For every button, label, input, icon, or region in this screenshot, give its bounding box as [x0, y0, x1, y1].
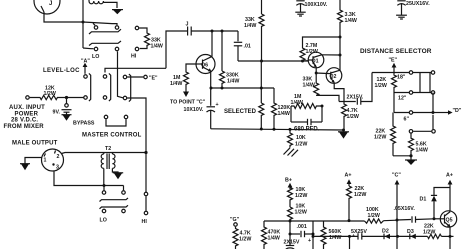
wire bus to switch row1 right contact [83, 22, 117, 25]
wire main supply column x=340 [339, 0, 341, 9]
svg-text:T2: T2 [105, 146, 111, 152]
switch S1 row2 contact right [115, 47, 119, 51]
resistor R17 10K 1/2W upper [288, 187, 308, 207]
resistor R1 33K 1/4W [139, 28, 163, 50]
resistor R2 33K 1/4W (x=261 column) [244, 0, 264, 61]
node 1M right end [321, 105, 324, 108]
svg-text:1/4W: 1/4W [291, 100, 303, 106]
resistor R3 1M 1/4W (Q6 base) [170, 64, 196, 92]
resistor R16 12K 1/2W (aux power) [26, 86, 84, 100]
capacitor C11 .05X16V (Q5 base coupling) [394, 206, 435, 223]
capacitor C2 .01 [234, 31, 251, 61]
svg-text:"A": "A" [81, 59, 90, 65]
selector row 6" with output D [394, 93, 462, 123]
svg-text:"G": "G" [230, 217, 240, 223]
wire Q1 collector to supply [322, 54, 340, 56]
svg-text:D3: D3 [407, 229, 414, 235]
svg-text:1/4W: 1/4W [151, 44, 163, 50]
terminal circle E [144, 75, 148, 79]
label AUX INPUT POWER [4, 105, 46, 130]
switch S1 row2 contact left [94, 47, 98, 51]
svg-text:+: + [216, 102, 219, 108]
svg-text:100K: 100K [366, 207, 379, 213]
svg-text:1/4W: 1/4W [278, 111, 290, 117]
node 330K bottom [221, 87, 224, 90]
node Q1 emitter junction [315, 72, 318, 75]
svg-text:SELECTED: SELECTED [224, 109, 257, 115]
ground arrow selector [405, 156, 417, 165]
wire row2 right contact down x=117 [118, 51, 123, 97]
wire vertical bus x=83 from top edge [82, 0, 84, 48]
wire master control HI column [145, 153, 147, 193]
node jack bus junction [82, 21, 85, 24]
node battery tap [65, 96, 68, 99]
wire T2 right bottom to ground [112, 168, 123, 179]
connector P1 male output [42, 149, 64, 171]
wire bottom rail y=129 [211, 129, 344, 130]
svg-text:1/2W: 1/2W [239, 237, 251, 243]
capacitor C9 2X15V (electrolytic, cut off) [284, 238, 312, 249]
diode D1 [420, 188, 451, 219]
svg-text:MASTER CONTROL: MASTER CONTROL [82, 133, 142, 139]
svg-text:+: + [308, 238, 311, 244]
wire emitter rail y=88 [211, 87, 274, 89]
svg-text:A+: A+ [446, 173, 453, 179]
svg-text:"E": "E" [149, 76, 158, 82]
svg-text:1/2W: 1/2W [368, 213, 380, 219]
resistor R23 100K 1/2W (horizontal) [365, 207, 384, 223]
HI column terminals (right) [142, 192, 148, 225]
resistor R15 22K 1/2W (selector bleed) [374, 113, 396, 156]
chassis ground hatch [284, 148, 299, 157]
switch S1 row1 contact left [94, 26, 98, 30]
pointer A+ (left) [345, 173, 352, 187]
wire stub to row1 left contact [93, 23, 95, 25]
node 10K ground leg [289, 128, 292, 131]
resistor R7 10K 1/2W (to chassis) [288, 129, 308, 147]
resistor R10 33K 1/4W (Q1 emitter) [303, 73, 340, 102]
svg-text:25UX16V.: 25UX16V. [406, 1, 430, 7]
transformer T1 winding (bottom half, cut off) [89, 0, 117, 8]
svg-text:1/4W: 1/4W [244, 23, 256, 29]
svg-text:TO POINT "C": TO POINT "C" [170, 100, 206, 106]
resistor R4 330K 1/4W [220, 31, 240, 88]
HI column contact top [135, 26, 139, 30]
svg-text:1/2W: 1/2W [354, 192, 366, 198]
svg-text:2X15V.: 2X15V. [347, 95, 364, 101]
wire row1 to terminal E [127, 76, 143, 78]
svg-text:BYPASS: BYPASS [73, 121, 95, 127]
capacitor C5 25UX16V with ground (top right) [396, 1, 430, 19]
transistor Q1 [308, 52, 324, 68]
svg-text:1/2W: 1/2W [44, 91, 56, 97]
node C on bias rail [396, 219, 399, 222]
switch S1 wiper bar row1 [89, 29, 121, 34]
wire jack to bus [44, 12, 83, 22]
resistor R8 3.3K 1/4W [338, 9, 357, 71]
diode D3 [407, 229, 416, 239]
master control switch contacts [100, 186, 129, 224]
pointer 'C' [392, 173, 401, 249]
node selector ground junction [409, 154, 412, 157]
resistor R13 12K 1/2W [375, 75, 397, 113]
node rail x=349.5 with stub [348, 235, 351, 249]
wire pin2 to T2 rail [62, 153, 147, 154]
svg-text:MALE OUTPUT: MALE OUTPUT [12, 141, 58, 147]
resistor R24 22K 1/2W (horizontal) [423, 224, 442, 239]
transistor Q6 [196, 55, 215, 74]
svg-text:LO: LO [100, 218, 107, 224]
capacitor C6 680 PFD loop [291, 106, 322, 133]
svg-text:Q5: Q5 [446, 217, 453, 223]
svg-text:680 PFD.: 680 PFD. [294, 127, 320, 133]
HI column contact bottom [135, 47, 139, 51]
node selected bottom [260, 128, 263, 131]
svg-text:LEVEL-LOC: LEVEL-LOC [43, 68, 80, 74]
capacitor C10 5X25V [351, 229, 367, 240]
svg-text:1/4W: 1/4W [268, 236, 280, 242]
svg-text:100X10V.: 100X10V. [305, 2, 328, 8]
svg-text:Q6: Q6 [201, 63, 208, 69]
svg-text:18": 18" [397, 75, 406, 81]
wire cap bus y=31 [191, 30, 238, 32]
svg-text:2: 2 [57, 154, 60, 160]
svg-text:Q1: Q1 [312, 58, 319, 64]
svg-text:D1: D1 [420, 197, 427, 203]
node selected resistor top [260, 87, 263, 90]
wire emitter rail stub down [449, 236, 451, 249]
resistor R9 2.7M 1/2W (feedback) [300, 37, 340, 61]
resistor R11 1M 1/4W (horizontal) [291, 94, 323, 109]
selector row 18": wire and contacts [372, 71, 435, 81]
node pot left leg [103, 184, 106, 187]
resistor R19 470K 1/4W [262, 221, 281, 249]
jack J1 (input jack, top left, cut off) [34, 0, 60, 14]
wire 33K column down to emitter rail [260, 61, 262, 103]
wire Q1 base feed y=61 [238, 60, 308, 62]
transformer T2 [101, 146, 115, 169]
wire Q1 emitter to Q2 base [316, 67, 331, 74]
wiper bracket 2 [109, 73, 111, 101]
capacitor C3 10X10V (Q6 emitter bypass) [184, 72, 219, 129]
node 22K rail [348, 219, 351, 222]
selector row 4 with 5.6K [409, 115, 435, 133]
ground arrow under T1 [112, 9, 123, 11]
svg-text:A+: A+ [345, 173, 352, 179]
wire level-loc link y=68 [105, 68, 166, 72]
wire row2 right to T2 rail [127, 98, 146, 153]
svg-text:1/2W: 1/2W [295, 142, 307, 148]
svg-text:6": 6" [404, 117, 410, 123]
svg-text:"E": "E" [389, 58, 398, 64]
resistor R12 4.7K 1/2W (Q2 emitter) [342, 102, 359, 130]
level-loc switch contacts row1 [84, 75, 127, 79]
svg-text:2X15V: 2X15V [284, 240, 300, 246]
level-loc switch contacts row2 [84, 96, 127, 100]
svg-text:1/4W: 1/4W [227, 79, 239, 85]
ground arrow (solid) at rail end [338, 131, 349, 133]
pointer 'E' (selector feed) [389, 58, 398, 75]
wire corner to cap bus [166, 31, 187, 68]
pointer arrow TO POINT C [183, 92, 189, 98]
svg-text:3: 3 [56, 165, 59, 171]
wire 2.7M bottom to Q1 base [303, 60, 309, 62]
svg-text:Q2: Q2 [329, 74, 336, 80]
svg-text:1/4W: 1/4W [345, 18, 357, 24]
node x=313 on .001 wire [312, 233, 315, 236]
wire diode rail y=236.4 [313, 235, 358, 237]
resistor R20 4.7K 1/2W [233, 227, 251, 249]
svg-text:HI: HI [131, 54, 137, 60]
switch S1 row1 contact right [115, 26, 119, 30]
svg-text:.05X16V.: .05X16V. [394, 206, 416, 212]
battery B1 9V with ground [53, 98, 72, 121]
resistor R18 10K 1/2W lower [288, 204, 307, 222]
capacitor C7 2X15V (Q2 emitter to selector) [334, 73, 372, 105]
node 2.7M bottom [301, 60, 304, 63]
node 33K column on base feed [260, 60, 263, 63]
svg-text:HI: HI [142, 219, 148, 225]
pointer 'A' [81, 59, 90, 74]
wire T2 left bottom to pot [103, 168, 105, 185]
svg-text:10K: 10K [296, 135, 306, 141]
wire pin1 to ground [25, 158, 42, 164]
node T2 rail junction [144, 151, 147, 154]
node Q5 emitter rail [449, 235, 452, 238]
bypass switch contacts with U link [104, 115, 128, 126]
svg-text:1/4W: 1/4W [416, 148, 428, 154]
node D1 bottom on base wire [433, 217, 436, 220]
svg-text:"C": "C" [392, 173, 401, 179]
svg-text:1/2W: 1/2W [375, 83, 387, 89]
capacitor C1 (J coupling cap) [186, 22, 192, 36]
terminal 'G' with 4.7K [230, 217, 240, 226]
wire pin3 down and right [54, 171, 124, 186]
svg-text:1/4W: 1/4W [170, 81, 182, 87]
pointer B+ [285, 178, 292, 190]
capacitor C4 100X10V with ground [295, 1, 328, 16]
wire Q5 emitter down [449, 227, 451, 237]
svg-text:FROM MIXER: FROM MIXER [4, 124, 45, 130]
svg-text:.001: .001 [297, 224, 307, 230]
capacitor C8 .001 [289, 221, 314, 245]
node 330K tap [221, 30, 224, 33]
node Q6 emitter rail left [210, 87, 213, 90]
pointer A+ (right) [446, 173, 453, 212]
transistor Q2 [326, 68, 342, 84]
node Q1 collector tap [339, 54, 342, 57]
wiper bracket 1 [89, 73, 91, 101]
svg-text:AUX. INPUT: AUX. INPUT [9, 105, 45, 111]
node 4.7K bottom rail end [342, 129, 345, 132]
svg-text:B+: B+ [285, 178, 292, 184]
node Q6 collector tap [211, 30, 214, 33]
node 120K bottom [273, 128, 276, 131]
svg-text:DISTANCE SELECTOR: DISTANCE SELECTOR [360, 48, 432, 55]
node x=313 on diode rail [312, 235, 315, 238]
ground arrow (male output) [20, 163, 30, 165]
wire Q2 collector to supply column [339, 69, 341, 72]
diode D2 [382, 229, 390, 240]
wire bottom bias rail y=221 [264, 220, 365, 222]
svg-text:9V.: 9V. [53, 110, 61, 116]
selector row 12" [394, 91, 435, 102]
selector link verticals rows 1-2 [420, 73, 430, 93]
svg-text:12": 12" [398, 96, 407, 102]
resistor R6 120K 1/4W [272, 88, 291, 129]
resistor R5 SELECTED (x=261) [224, 103, 264, 129]
transistor Q5 [434, 211, 457, 227]
wire selector ground bus [393, 155, 411, 157]
svg-text:28 V.D.C.: 28 V.D.C. [11, 118, 38, 124]
svg-text:LO: LO [92, 54, 99, 60]
svg-text:1/2W: 1/2W [423, 230, 435, 236]
svg-text:1/2W: 1/2W [374, 135, 386, 141]
svg-text:10X10V.: 10X10V. [184, 107, 204, 113]
switch S1 wiper bar row2 [89, 41, 121, 46]
svg-text:1/4W: 1/4W [303, 83, 315, 89]
resistor R21 560K 1/4W [321, 221, 341, 249]
svg-text:J: J [186, 22, 189, 28]
svg-text:1: 1 [44, 158, 47, 164]
wiper bracket 3 [129, 74, 131, 102]
svg-text:1/2W: 1/2W [295, 193, 307, 199]
svg-text:"D": "D" [453, 108, 462, 114]
svg-text:1/2W: 1/2W [295, 210, 307, 216]
resistor R22 22K 1/2W [347, 186, 367, 221]
svg-text:1/2W: 1/2W [347, 114, 359, 120]
node C on diode rail [396, 235, 399, 238]
wire x=313 column [312, 221, 314, 249]
svg-text:D2: D2 [382, 229, 389, 235]
svg-text:.01: .01 [244, 44, 251, 50]
resistor R14 5.6K 1/4W [409, 133, 428, 155]
wire bus to LO switch row2 left contact [83, 47, 94, 50]
svg-text:J: J [49, 1, 52, 7]
node 2.7M rail tap [339, 36, 342, 39]
node rail x=290 [289, 220, 292, 223]
wire Q6 collector up [211, 31, 213, 57]
